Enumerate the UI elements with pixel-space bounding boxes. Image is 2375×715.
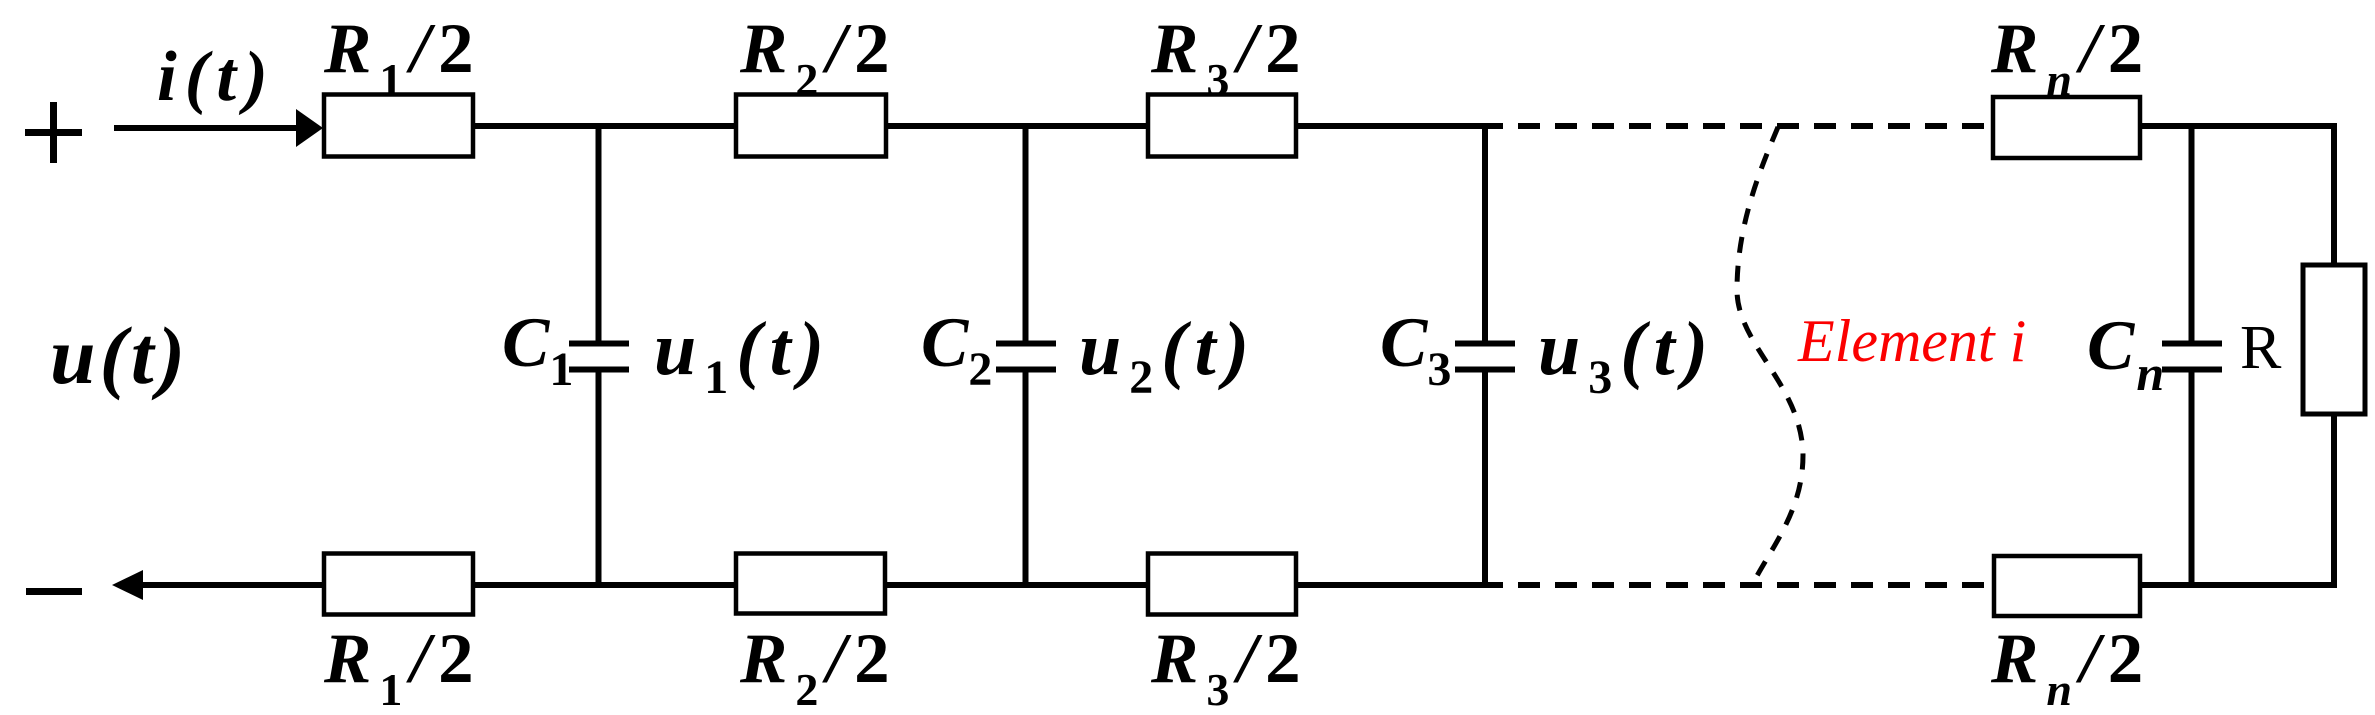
wire corner down to resistor R [2331, 123, 2337, 267]
resistor R1/2 bottom [324, 554, 473, 615]
svg-text:u2(t): u2(t) [1079, 307, 1257, 404]
resistor Rn/2 bottom [1994, 556, 2140, 616]
svg-text:R: R [2240, 314, 2282, 382]
resistor R3/2 top [1148, 95, 1296, 157]
wire Cn upper [2189, 126, 2195, 346]
capacitor Cn [2162, 344, 2222, 370]
wire bottom rail segment 2 [885, 582, 1148, 588]
wire bottom rail right segment [2140, 582, 2337, 588]
wire bottom rail segment 3 [1296, 582, 1503, 588]
resistor R2/2 top [736, 95, 886, 157]
minus terminal symbol [26, 588, 82, 595]
capacitor C2 [996, 344, 1056, 370]
svg-text:u1(t): u1(t) [654, 307, 832, 404]
wire C1 lower [596, 368, 602, 585]
plus terminal symbol [25, 102, 82, 163]
svg-text:i(t): i(t) [157, 38, 276, 116]
wire top rail segment 2 [886, 123, 1148, 129]
wire top-left input with current arrow [114, 109, 323, 147]
dashed element boundary curve [1737, 127, 1803, 585]
wire C3 lower [1482, 368, 1488, 585]
resistor R1/2 top [324, 95, 473, 157]
wire bottom rail segment 1 [473, 582, 738, 588]
svg-text:Element i: Element i [1797, 308, 2026, 374]
wire top rail dashed continuation [1503, 123, 1993, 129]
resistor Rn/2 top [1993, 97, 2140, 158]
wire bottom rail dashed continuation [1503, 582, 1994, 588]
resistor R3/2 bottom [1148, 554, 1296, 615]
wire Cn lower [2189, 368, 2195, 585]
resistor R (load) [2303, 265, 2365, 414]
wire top rail right segment [2140, 123, 2334, 129]
svg-text:u(t): u(t) [50, 310, 189, 401]
wire top rail segment 1 [473, 123, 738, 129]
resistor R2/2 bottom [736, 554, 885, 614]
node A (C1 top junction) / wire C1 upper [596, 126, 602, 346]
capacitor C1 [569, 344, 629, 370]
wire C3 upper [1482, 126, 1488, 346]
wire C2 lower [1023, 368, 1029, 585]
wire top rail segment 3 [1296, 123, 1503, 129]
svg-text:u3(t): u3(t) [1538, 307, 1716, 404]
wire C2 upper [1023, 126, 1029, 346]
capacitor C3 [1455, 344, 1515, 370]
wire bottom-left output with arrow [112, 570, 324, 600]
wire R lower stub [2331, 414, 2337, 588]
